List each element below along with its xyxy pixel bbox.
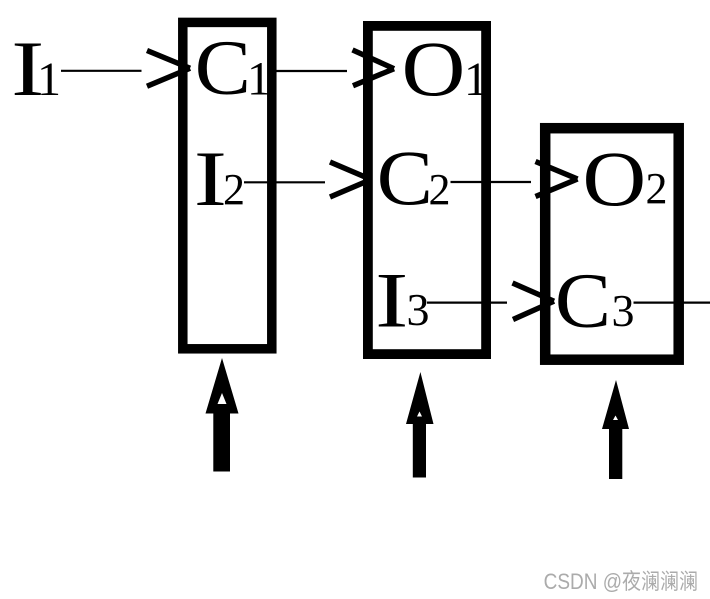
label O2 bbox=[583, 137, 668, 223]
stage box 2 bbox=[368, 26, 486, 354]
wire C3 output bbox=[634, 302, 710, 304]
svg-text:2: 2 bbox=[429, 165, 451, 214]
label I3 bbox=[375, 258, 429, 344]
svg-text:3: 3 bbox=[612, 285, 635, 336]
label I2 bbox=[194, 136, 245, 222]
wire C1 to O1 bbox=[272, 50, 394, 86]
svg-text:2: 2 bbox=[646, 164, 668, 213]
label C1 bbox=[195, 24, 271, 110]
svg-text:O: O bbox=[583, 137, 647, 223]
svg-text:I: I bbox=[375, 258, 408, 344]
label C3 bbox=[555, 257, 635, 343]
clock arrow 3 bbox=[602, 380, 629, 479]
svg-text:1: 1 bbox=[247, 53, 271, 106]
input label I1 bbox=[11, 26, 61, 112]
clock arrow 1 bbox=[206, 358, 239, 472]
svg-text:C: C bbox=[195, 24, 251, 110]
watermark bbox=[544, 570, 700, 596]
svg-text:C: C bbox=[377, 135, 433, 221]
svg-text:CSDN @夜澜澜澜: CSDN @夜澜澜澜 bbox=[544, 570, 698, 595]
wire I1 to C1 bbox=[61, 51, 190, 87]
svg-text:1: 1 bbox=[464, 53, 488, 106]
svg-text:1: 1 bbox=[37, 53, 61, 106]
label C2 bbox=[377, 135, 451, 221]
wire I2 to C2 bbox=[244, 162, 371, 197]
label O1 bbox=[402, 26, 488, 112]
clock arrow 2 bbox=[406, 372, 434, 478]
wire C2 to O2 bbox=[451, 162, 578, 197]
svg-text:C: C bbox=[555, 257, 611, 343]
svg-text:O: O bbox=[402, 26, 466, 112]
stage box 1 bbox=[183, 22, 272, 348]
svg-text:2: 2 bbox=[223, 165, 245, 214]
svg-text:3: 3 bbox=[407, 284, 430, 335]
stage box 3 bbox=[545, 128, 679, 360]
wire I3 to C3 bbox=[427, 283, 554, 320]
